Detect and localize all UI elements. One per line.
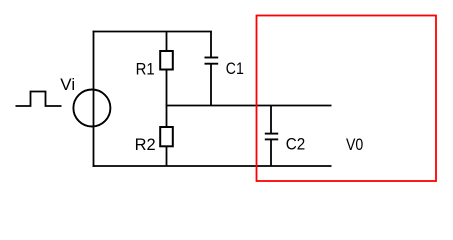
capacitor C2: [265, 134, 278, 140]
svg-text:V0: V0: [346, 135, 363, 154]
wire: top horizontal: [93, 31, 212, 33]
capacitor C1: [205, 58, 219, 64]
wire: left vertical branch: [93, 31, 95, 167]
svg-text:C2: C2: [286, 135, 306, 154]
svg-text:R1: R1: [136, 60, 155, 79]
wire: R1 top stub: [166, 32, 168, 53]
resistor R1: [160, 51, 173, 70]
wire: C1 top stub: [210, 32, 212, 58]
wire: C1 bottom stub: [210, 64, 212, 106]
wire: C2 top stub: [270, 106, 272, 134]
svg-text:Vi: Vi: [60, 75, 75, 94]
wire: C2 bottom stub: [270, 139, 272, 166]
wire: bottom horizontal: [93, 165, 332, 167]
wire: R2 top stub: [166, 106, 168, 129]
wire: middle horizontal (output node): [166, 105, 332, 107]
output measurement region box (red): [257, 16, 437, 182]
pulse input waveform icon: [16, 92, 62, 107]
wire: R1 bottom stub: [166, 70, 168, 106]
voltage source Vi: [73, 90, 110, 127]
svg-text:C1: C1: [226, 59, 244, 78]
svg-text:R2: R2: [135, 135, 156, 154]
wire: R2 bottom stub: [166, 146, 168, 166]
resistor R2: [160, 127, 173, 146]
